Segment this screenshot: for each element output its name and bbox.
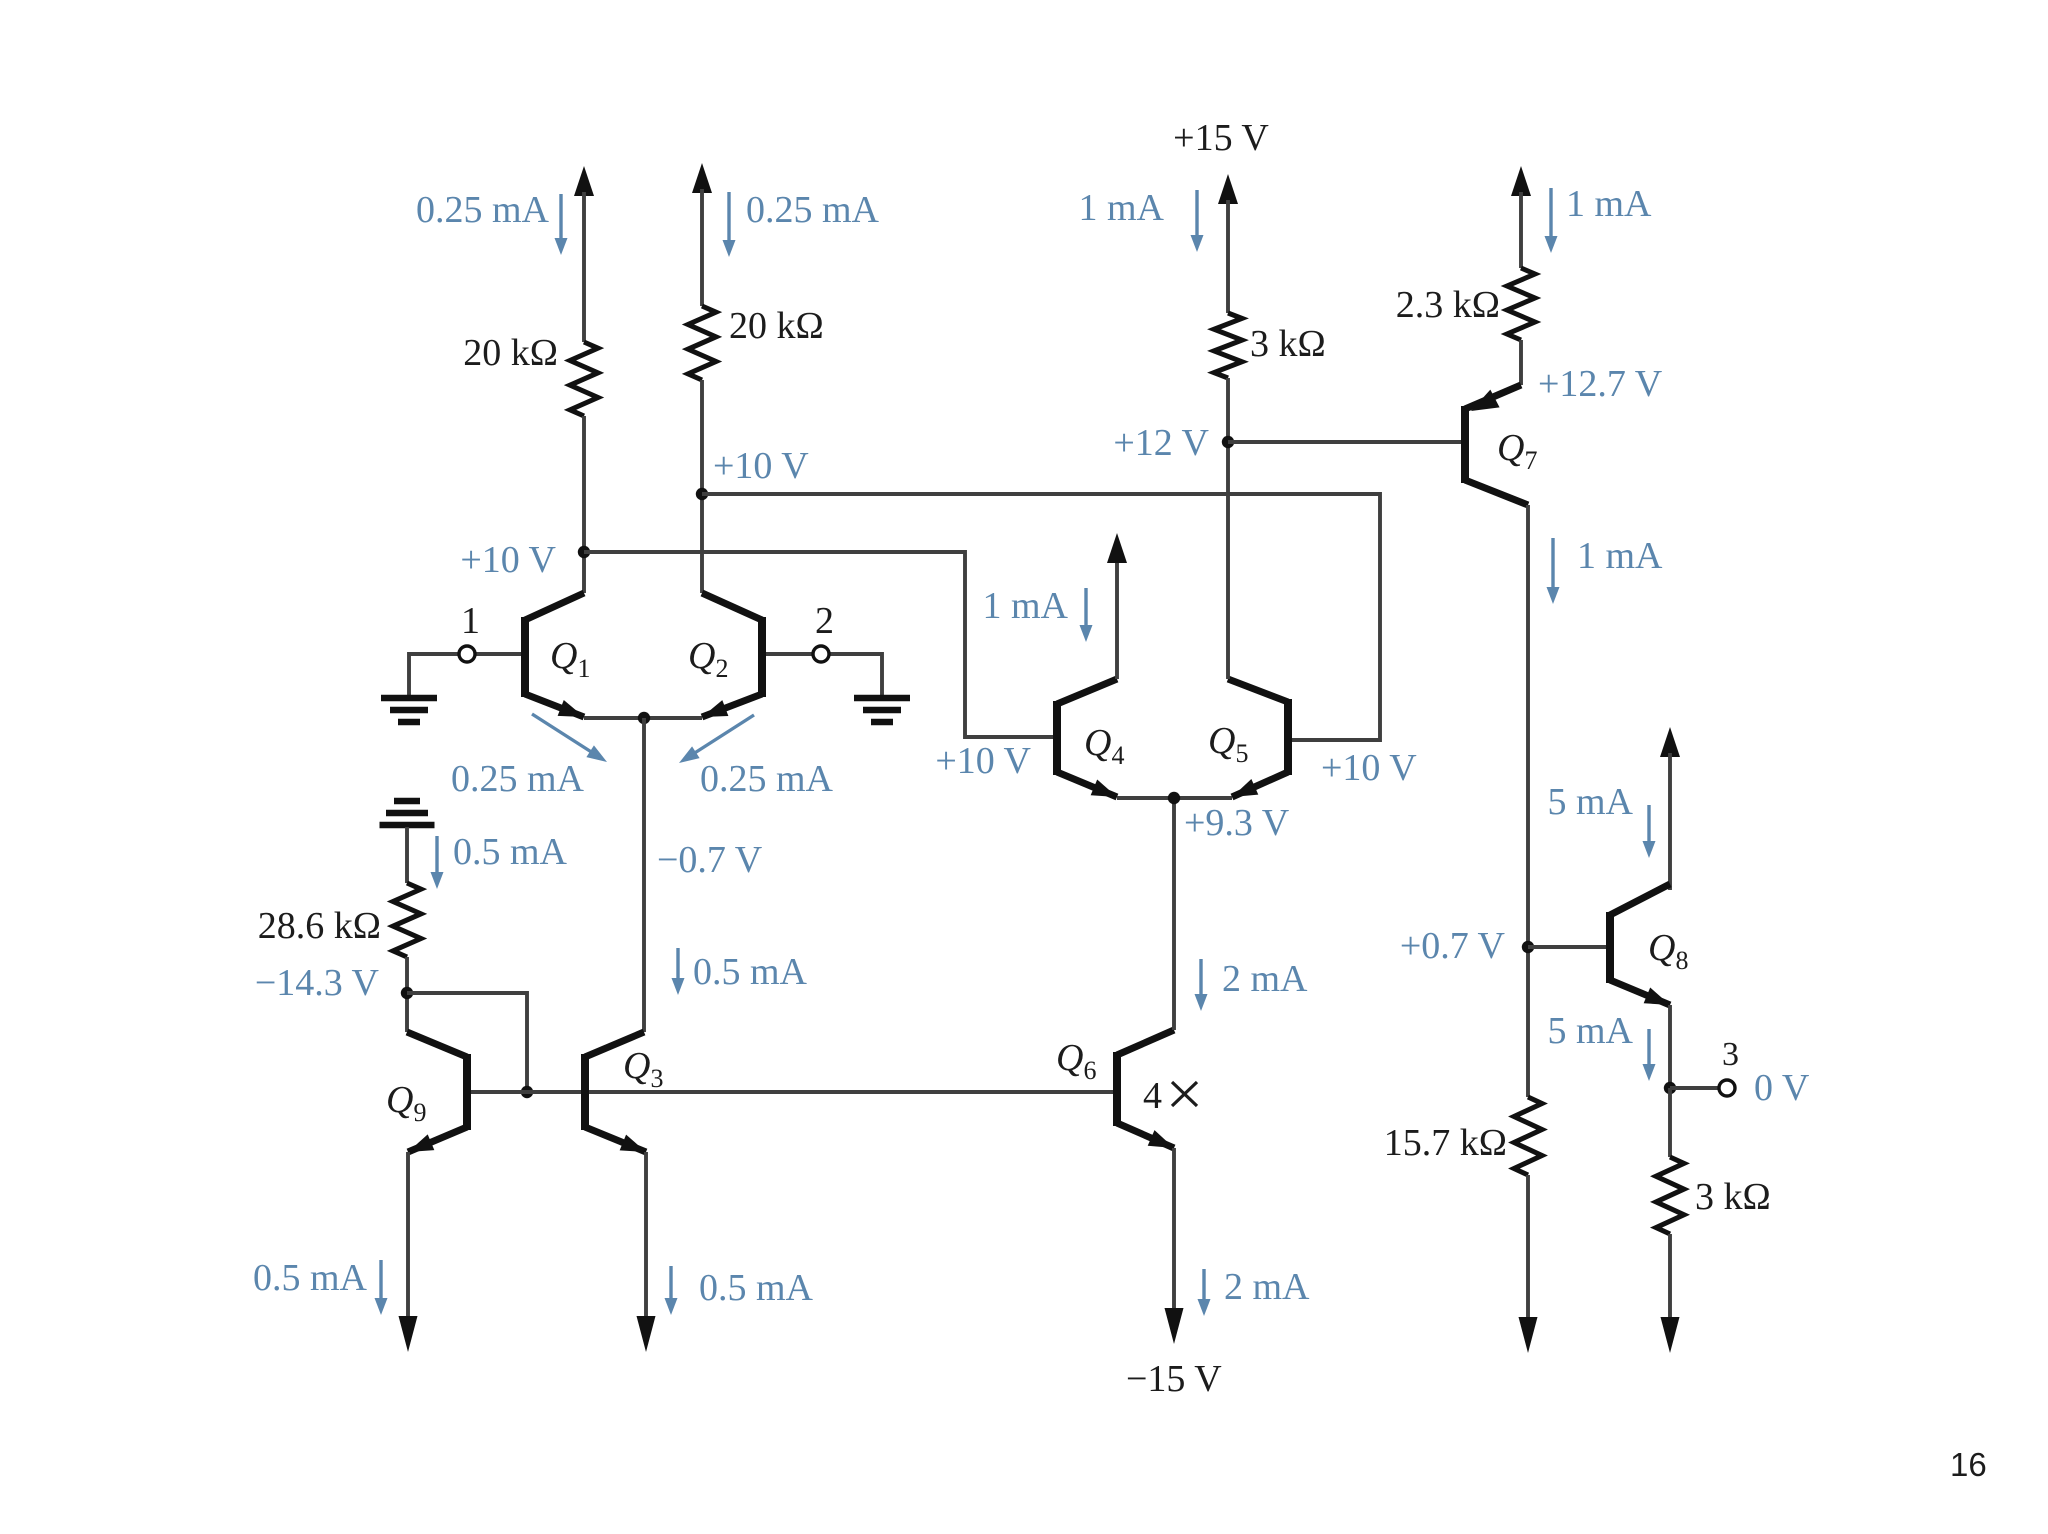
resistor R7 3 kOhm bbox=[1656, 1157, 1684, 1234]
svg-text:0 V: 0 V bbox=[1754, 1067, 1810, 1109]
svg-text:4: 4 bbox=[1143, 1075, 1162, 1117]
svg-text:1 mA: 1 mA bbox=[1566, 183, 1652, 225]
node +9.3 V bbox=[1168, 792, 1180, 804]
node: common emitters Q1 Q2 bbox=[638, 712, 650, 724]
wire: R1 to Q1 collector node (+10 V) bbox=[582, 416, 586, 593]
svg-text:2 mA: 2 mA bbox=[1224, 1266, 1310, 1308]
resistor R5 28.6 kOhm bbox=[393, 883, 421, 957]
wire +15V to R4 (2.3k) bbox=[1511, 166, 1531, 196]
resistor R1 20 kOhm bbox=[570, 342, 598, 416]
svg-text:0.5 mA: 0.5 mA bbox=[453, 831, 568, 873]
wire: base rail Q9-Q3-Q6 bbox=[471, 1090, 1113, 1094]
wire: R2 to Q2 collector node (+10 V) bbox=[700, 380, 704, 593]
transistor Q8 bbox=[1606, 912, 1614, 983]
blue arrow 1 mA into 2.3k bbox=[1549, 188, 1552, 240]
svg-text:+9.3 V: +9.3 V bbox=[1184, 802, 1290, 844]
transistor Q6 bbox=[1113, 1052, 1121, 1126]
svg-text:−14.3 V: −14.3 V bbox=[255, 962, 380, 1004]
resistor R3 3 kOhm bbox=[1214, 313, 1242, 378]
svg-text:15.7 kΩ: 15.7 kΩ bbox=[1384, 1122, 1507, 1164]
resistor R6 15.7 kOhm bbox=[1514, 1097, 1542, 1175]
svg-text:0.25 mA: 0.25 mA bbox=[700, 758, 834, 800]
wire: +15V to Q8 collector bbox=[1660, 727, 1680, 757]
ground above 28.6k resistor bbox=[380, 822, 435, 829]
wire R3 to +12V node and to Q5 collector bbox=[1226, 378, 1230, 679]
wire R5 to -14.3V node bbox=[405, 957, 409, 1032]
node +10V at Q1 collector bbox=[578, 546, 590, 558]
node +12 V bbox=[1222, 436, 1234, 448]
svg-text:+12 V: +12 V bbox=[1113, 422, 1209, 464]
wire: common emitter node down to Q3 collector bbox=[642, 718, 646, 1032]
svg-text:1 mA: 1 mA bbox=[1079, 187, 1165, 229]
terminal 3 (output) bbox=[1670, 1086, 1719, 1090]
svg-text:3 kΩ: 3 kΩ bbox=[1250, 323, 1326, 365]
wire: output node to R7 (3k) bbox=[1668, 1088, 1672, 1157]
node on base rail bbox=[521, 1086, 533, 1098]
resistor R4 2.3 kOhm bbox=[1507, 268, 1535, 340]
blue arrow emitter current Q2 bbox=[692, 715, 754, 754]
svg-text:0.5 mA: 0.5 mA bbox=[699, 1267, 814, 1309]
wire: Q9 emitter to -15V bbox=[406, 1152, 410, 1324]
wire +15V to R3 bbox=[1226, 200, 1230, 313]
svg-text:+10 V: +10 V bbox=[935, 740, 1031, 782]
svg-text:2 mA: 2 mA bbox=[1222, 958, 1308, 1000]
node +10V at Q2 collector bbox=[696, 488, 708, 500]
svg-text:1 mA: 1 mA bbox=[983, 585, 1069, 627]
wire -14.3V node to mirror base rail bbox=[407, 993, 527, 1092]
wire ground to R5 bbox=[405, 827, 409, 883]
wire: Q7 collector down to +0.7V node and 15.7k bbox=[1526, 505, 1530, 1097]
ground at input 1 bbox=[381, 695, 437, 702]
wire R4 to Q7 emitter bbox=[1519, 340, 1523, 385]
svg-text:+10 V: +10 V bbox=[713, 445, 809, 487]
svg-text:5 mA: 5 mA bbox=[1548, 1010, 1634, 1052]
transistor Q3 bbox=[581, 1054, 589, 1130]
svg-text:5 mA: 5 mA bbox=[1548, 781, 1634, 823]
wire +12V node to Q7 base bbox=[1228, 440, 1461, 444]
node output bbox=[1664, 1082, 1676, 1094]
node -14.3 V bbox=[401, 987, 413, 999]
wire: +15V feed to R1 (left 20k) bbox=[574, 166, 594, 196]
transistor Q1 bbox=[521, 617, 529, 697]
wire: Q8 emitter to output node bbox=[1668, 1005, 1672, 1088]
node +0.7 V bbox=[1522, 941, 1534, 953]
wire: emitters of Q1/Q2 to common node bbox=[584, 716, 702, 720]
wire: Q3 emitter to -15V bbox=[644, 1152, 648, 1324]
svg-text:+0.7 V: +0.7 V bbox=[1400, 925, 1506, 967]
resistor R2 20 kOhm bbox=[688, 306, 716, 380]
svg-text:0.25 mA: 0.25 mA bbox=[451, 758, 585, 800]
svg-text:0.25 mA: 0.25 mA bbox=[746, 189, 880, 231]
ground at input 2 bbox=[854, 695, 910, 702]
svg-text:+10 V: +10 V bbox=[1321, 747, 1417, 789]
svg-text:0.25 mA: 0.25 mA bbox=[416, 189, 550, 231]
svg-text:20 kΩ: 20 kΩ bbox=[729, 305, 824, 347]
svg-text:3 kΩ: 3 kΩ bbox=[1695, 1176, 1771, 1218]
wire: Q4/Q5 common emitters bbox=[1117, 796, 1232, 800]
wire +0.7V node to Q8 base bbox=[1528, 945, 1606, 949]
wire: +15V feed to R2 (right 20k) bbox=[692, 163, 712, 193]
blue arrow 1 mA from Q7 bbox=[1551, 538, 1554, 591]
transistor Q4 bbox=[1053, 701, 1061, 775]
wire: Q4 collector to +15V bbox=[1115, 561, 1119, 679]
svg-text:28.6 kΩ: 28.6 kΩ bbox=[258, 905, 381, 947]
svg-text:0.5 mA: 0.5 mA bbox=[253, 1257, 368, 1299]
svg-text:16: 16 bbox=[1950, 1446, 1987, 1483]
transistor Q2 bbox=[758, 617, 766, 697]
blue arrow emitter current Q1 bbox=[532, 714, 594, 753]
svg-text:2.3 kΩ: 2.3 kΩ bbox=[1396, 284, 1500, 326]
wire: Q2 collector node to Q5 base bbox=[702, 494, 1380, 740]
svg-text:−15 V: −15 V bbox=[1126, 1358, 1222, 1400]
wire R7 to -15V bbox=[1668, 1234, 1672, 1325]
wire: Q1 collector node to Q4 base bbox=[584, 552, 1053, 737]
svg-text:1 mA: 1 mA bbox=[1577, 535, 1663, 577]
wire R6 to -15V bbox=[1526, 1175, 1530, 1324]
svg-text:+12.7 V: +12.7 V bbox=[1538, 363, 1663, 405]
transistor Q9 bbox=[463, 1054, 471, 1130]
svg-text:+15 V: +15 V bbox=[1173, 117, 1269, 159]
svg-text:1: 1 bbox=[461, 600, 480, 642]
blue arrow 0.5 mA through 28.6k bbox=[435, 836, 438, 876]
blue arrow 0.5 mA into Q3 bbox=[676, 948, 679, 982]
label current 0.25 mA into R2 bbox=[727, 192, 730, 244]
wire: Q6 emitter to -15V bbox=[1172, 1148, 1176, 1316]
wire: Q6 collector to +9.3V node bbox=[1172, 798, 1176, 1030]
transistor Q7 (pnp) bbox=[1461, 406, 1469, 483]
blue arrow 2 mA into Q6 bbox=[1199, 959, 1202, 998]
svg-text:0.5 mA: 0.5 mA bbox=[693, 951, 808, 993]
svg-text:+10 V: +10 V bbox=[460, 539, 556, 581]
svg-text:−0.7 V: −0.7 V bbox=[657, 839, 763, 881]
transistor Q5 bbox=[1284, 699, 1292, 775]
svg-text:3: 3 bbox=[1722, 1036, 1739, 1073]
svg-text:2: 2 bbox=[815, 600, 834, 642]
svg-text:20 kΩ: 20 kΩ bbox=[463, 332, 558, 374]
